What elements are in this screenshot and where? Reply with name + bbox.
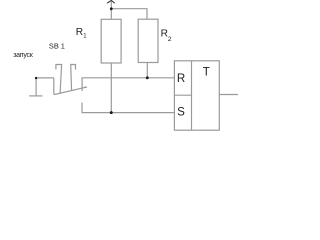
trigger T block vertical divider (191, 61, 193, 130)
svg-text:запуск: запуск (13, 52, 34, 59)
node pulse corner dot (35, 77, 37, 79)
wire R2 bottom to R line (146, 63, 148, 78)
power arrowhead (107, 0, 115, 3)
wire pulse top (36, 77, 54, 79)
svg-text:2: 2 (168, 36, 172, 43)
switch SB1 left contact (56, 65, 62, 94)
wire pulse rising edge (35, 78, 37, 96)
svg-text:R: R (76, 27, 83, 38)
trigger T block R/S cell divider (174, 94, 191, 96)
switch SB1 lever (57, 87, 87, 94)
wire link to switch (54, 93, 57, 95)
switch SB1 lever end tick (84, 86, 87, 88)
svg-text:SB 1: SB 1 (49, 42, 65, 51)
svg-text:1: 1 (83, 33, 87, 39)
wire trigger output (219, 94, 238, 96)
switch SB1 right contact (71, 65, 76, 92)
wire upper throw to R line (82, 78, 174, 91)
wire power vertical (110, 1, 112, 19)
svg-text:S: S (177, 106, 185, 119)
wire R1 bottom to S line (110, 63, 112, 113)
wire lower throw to S line (82, 103, 174, 113)
trigger T block outline (174, 61, 219, 130)
node R2 to R line junction (146, 76, 149, 79)
node power junction (110, 7, 113, 10)
wire pulse falling edge (53, 78, 55, 95)
resistor R2 (138, 19, 158, 62)
resistor R1 (101, 19, 121, 63)
svg-text:T: T (203, 66, 210, 79)
svg-text:R: R (177, 72, 185, 85)
wire power horizontal to R2 (111, 9, 147, 20)
wire pulse baseline (29, 95, 42, 97)
node R1 to S line junction (110, 111, 113, 114)
